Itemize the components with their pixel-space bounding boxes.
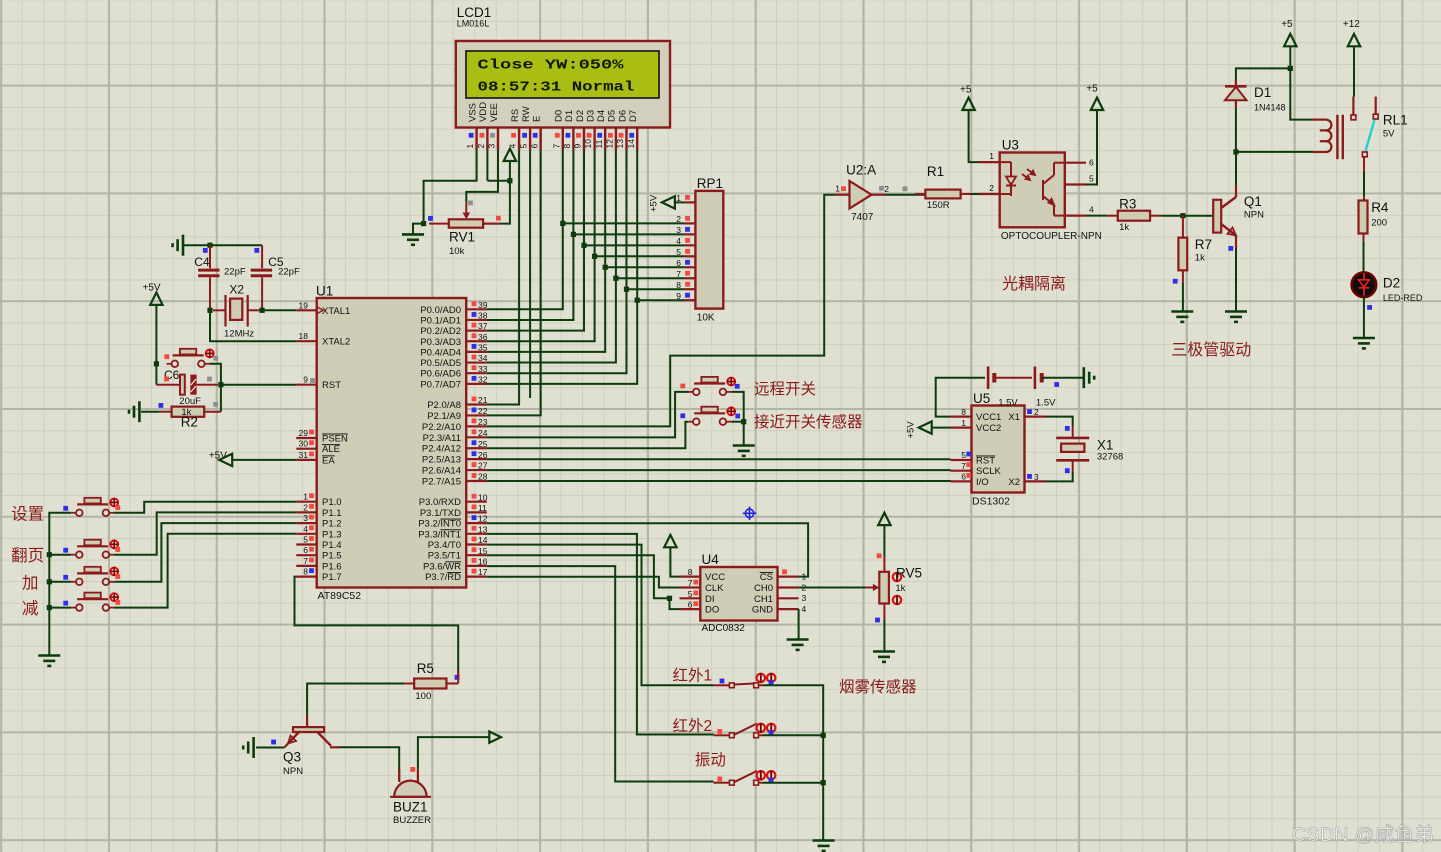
svg-text:7: 7 (303, 556, 308, 566)
U4 pin 3 CH1 (754, 593, 807, 605)
svg-text:P2.7/A15: P2.7/A15 (422, 477, 461, 488)
switch 振动 (729, 780, 734, 785)
svg-text:38: 38 (478, 311, 488, 321)
relay core bars (1337, 115, 1342, 159)
wire +5 node to relay coil top (1290, 68, 1313, 119)
buffer U2:A 7407 triangle (850, 181, 872, 209)
origin crosshair marker (743, 507, 757, 521)
wire +5 to U4 VCC (670, 547, 679, 576)
RP1 pin 1 (676, 193, 695, 203)
svg-text:PSEN: PSEN (322, 434, 348, 445)
svg-text:D7: D7 (628, 110, 639, 122)
svg-text:P2.5/A13: P2.5/A13 (422, 455, 461, 466)
svg-text:ADC0832: ADC0832 (702, 623, 746, 634)
svg-text:P0.2/AD2: P0.2/AD2 (420, 326, 461, 337)
svg-text:39: 39 (478, 300, 488, 310)
svg-text:7: 7 (551, 144, 561, 149)
svg-text:P1.4: P1.4 (322, 540, 342, 551)
svg-text:P0.1/AD1: P0.1/AD1 (420, 315, 461, 326)
wire R5 to Q3 base (307, 684, 404, 715)
U4 pin 2 CH0 (754, 582, 807, 594)
blue square X1 bottom (1065, 468, 1070, 473)
wire reset button right to RST node (210, 364, 221, 385)
svg-text:P1.6: P1.6 (322, 561, 342, 572)
blue square 接近开关 left (680, 413, 685, 418)
wire D2 to ground (1363, 297, 1365, 337)
U1 pin 36 P0.3/AD3 (420, 332, 487, 348)
svg-text:P1.3: P1.3 (322, 529, 342, 540)
svg-text:36: 36 (478, 332, 488, 342)
power +5V arrow above RV1 right (504, 149, 516, 161)
svg-text:6: 6 (529, 144, 539, 149)
wire RST node down to R2 (220, 385, 222, 412)
svg-text:CSDN @咸鱼弟: CSDN @咸鱼弟 (1292, 824, 1434, 846)
svg-text:U5: U5 (973, 391, 990, 406)
wire R4 to D2 (1363, 233, 1365, 241)
svg-text:P2.1/A9: P2.1/A9 (427, 411, 461, 422)
ADC U4 ADC0832 body (700, 567, 777, 621)
svg-text:远程开关: 远程开关 (754, 380, 816, 398)
wire U5 X2 pin to crystal bottom (1046, 472, 1073, 481)
svg-text:15: 15 (478, 546, 488, 556)
U1 pin 15 P3.5 (428, 546, 488, 562)
RP1 pin 5 (676, 247, 695, 257)
svg-text:NPN: NPN (1244, 210, 1264, 221)
blue square 设置 left (63, 506, 68, 511)
RV5 interactive marker up (893, 572, 901, 582)
U4 pin 6 DO (680, 600, 720, 616)
U1 pin 28 P2.7/A15 (422, 472, 488, 488)
blue square 振动 (769, 778, 774, 783)
svg-text:P2.2/A10: P2.2/A10 (422, 422, 461, 433)
U1 pin 5 P1.4 (296, 535, 341, 552)
svg-text:R5: R5 (417, 661, 434, 676)
crystal X2 (213, 295, 260, 327)
svg-text:6: 6 (676, 258, 681, 268)
LCD1 pin 13 (D6) (615, 110, 628, 150)
svg-text:P3.6/WR: P3.6/WR (423, 561, 461, 572)
red square 红外2 label (717, 729, 722, 734)
svg-text:9: 9 (303, 375, 308, 385)
wire R2 left to ground (141, 411, 160, 413)
svg-text:VCC2: VCC2 (976, 423, 1001, 434)
LCD1 pin 8 (D1) (562, 110, 575, 150)
svg-text:19: 19 (299, 300, 309, 310)
U1 pin 31 EA (296, 450, 335, 467)
ground at D2 (1353, 338, 1375, 348)
gray square reset button right (213, 356, 218, 361)
push button 接近开关 (688, 413, 731, 425)
svg-text:U3: U3 (1002, 138, 1019, 153)
svg-text:P3.3/INT1: P3.3/INT1 (418, 529, 461, 540)
svg-text:RS: RS (510, 109, 521, 122)
wire VDD net (+5V arrow to RV1 right, branch LCD pin2) (484, 161, 510, 224)
U1 pin 23 P2.2/A10 (422, 417, 488, 433)
push button (reset) (167, 355, 210, 367)
svg-text:13: 13 (478, 524, 488, 534)
wire common button ground bus (49, 513, 71, 655)
LCD1 pin 10 (D3) (583, 110, 596, 150)
LCD1 pin 14 (D7) (626, 110, 639, 150)
U1 pin 38 P0.1/AD1 (420, 311, 487, 327)
U5 pin 5 RST (951, 450, 996, 466)
red square C6 (164, 377, 169, 382)
U4 pin 8 VCC (680, 567, 726, 583)
svg-text:U2:A: U2:A (846, 163, 876, 178)
LCD1 pin 6 (E) (529, 116, 542, 150)
junction D1 with RP1 pin 3 (571, 232, 576, 237)
wire 翻页 left (49, 554, 71, 556)
svg-text:37: 37 (478, 321, 488, 331)
blue square RV5 bottom (875, 618, 880, 623)
svg-text:红外2: 红外2 (673, 717, 713, 735)
junction crystal left (207, 308, 212, 313)
svg-text:VCC1: VCC1 (976, 412, 1001, 423)
blue square 减 left (63, 601, 68, 606)
svg-text:P0.7/AD7: P0.7/AD7 (420, 379, 461, 390)
svg-text:32768: 32768 (1097, 452, 1123, 463)
LCD1 pin 1 (VSS) (465, 103, 478, 150)
U1 pin 1 P1.0 (296, 492, 341, 509)
svg-text:D2: D2 (575, 110, 586, 122)
ground at RV1 (402, 234, 424, 244)
svg-text:P2.4/A12: P2.4/A12 (422, 444, 461, 455)
svg-text:Close YW:050%: Close YW:050% (478, 59, 625, 74)
ground (rotated) near C4 (173, 235, 183, 256)
power +5 arrow at U4 VCC (664, 535, 676, 547)
svg-text:100: 100 (415, 691, 431, 702)
svg-text:RW: RW (521, 106, 532, 122)
RTC U5 DS1302 body (972, 406, 1025, 493)
U5 pin 6 I/O (951, 472, 989, 488)
U3 pin 4 (1065, 205, 1094, 216)
svg-text:U1: U1 (316, 284, 333, 299)
wire +5 to U3 pin5 (1086, 110, 1097, 185)
wire net P2.4 (U1 to 接近开关 button) (487, 422, 688, 449)
svg-text:+5V: +5V (649, 194, 660, 212)
svg-text:VCC: VCC (705, 572, 725, 583)
wire +12 down to relay common (1353, 46, 1355, 96)
wire net P2.5 (U1 to U5 RST) (487, 458, 951, 460)
wire net RW (LCD pin5 riser) (529, 150, 531, 398)
svg-text:8: 8 (562, 144, 572, 149)
blue square 红外1 (769, 680, 774, 685)
capacitor C5 (251, 245, 272, 310)
U1 pin 16 P3.6 (423, 557, 488, 573)
U2:A input pin 1 (835, 184, 849, 195)
wire RP1 pin 5 row (595, 255, 685, 257)
junction reset button left (154, 361, 159, 366)
U1 pin 19 XTAL1 (296, 300, 350, 317)
LED D2 LED-RED (1352, 272, 1377, 297)
svg-text:17: 17 (478, 567, 488, 577)
svg-text:5: 5 (1089, 174, 1094, 184)
svg-text:18: 18 (299, 331, 309, 341)
红外1 interactive markers (757, 673, 765, 683)
junction D2 with RP1 pin 4 (581, 243, 586, 248)
svg-text:VSS: VSS (467, 103, 478, 122)
svg-text:7: 7 (676, 269, 681, 279)
svg-text:8: 8 (676, 280, 681, 290)
svg-text:6: 6 (303, 545, 308, 555)
junction D5 with RP1 pin 7 (613, 276, 618, 281)
wire ground to C4/C5 top (183, 244, 262, 246)
svg-text:D0: D0 (554, 110, 565, 122)
blue square C5 top (254, 248, 259, 253)
svg-text:25: 25 (478, 439, 488, 449)
wire net D3/P0.3 (LCD pin 10 column to U1 P0.3) (487, 150, 595, 341)
RV5 interactive marker down (893, 595, 901, 605)
junction 加 bus (47, 579, 52, 584)
U2:A output pin 2 (872, 184, 890, 195)
svg-text:P3.5/T1: P3.5/T1 (428, 551, 461, 562)
svg-text:5V: 5V (1383, 129, 1395, 140)
wire RP1 pin 3 row (573, 233, 684, 235)
svg-text:2: 2 (676, 214, 681, 224)
U1 pin 8 P1.7 (296, 567, 341, 584)
red square 远程开关 left (680, 384, 685, 389)
svg-text:3: 3 (802, 593, 807, 603)
relay RL1 switch (1351, 97, 1378, 157)
U5 pin 1 VCC2 (951, 418, 1002, 434)
svg-text:9: 9 (573, 144, 583, 149)
红外2 interactive markers (757, 723, 765, 733)
svg-text:20uF: 20uF (179, 396, 201, 407)
svg-text:4: 4 (1089, 205, 1094, 215)
svg-text:1.5V: 1.5V (1036, 398, 1056, 409)
svg-text:P1.1: P1.1 (322, 508, 342, 519)
junction D6 with RP1 pin 8 (624, 287, 629, 292)
svg-text:三极管驱动: 三极管驱动 (1171, 341, 1251, 359)
wire D1 to +5 node (1236, 68, 1290, 80)
U1 pin 18 XTAL2 (296, 331, 350, 348)
svg-text:10K: 10K (697, 313, 715, 324)
svg-text:1: 1 (989, 151, 994, 161)
svg-text:7: 7 (688, 578, 693, 588)
capacitor C6 (electrolytic) (156, 375, 218, 395)
svg-text:22: 22 (478, 406, 488, 416)
svg-text:8: 8 (961, 407, 966, 417)
svg-text:LED-RED: LED-RED (1383, 293, 1423, 303)
svg-text:振动: 振动 (695, 751, 726, 769)
junction 红外2 bus (821, 733, 826, 738)
ground at U4 (787, 640, 809, 650)
blue square 红外2 (769, 730, 774, 735)
svg-text:P1.0: P1.0 (322, 497, 342, 508)
wire 翻页 to U1 P1.1 (114, 512, 296, 554)
svg-text:12MHz: 12MHz (224, 329, 254, 340)
svg-text:22pF: 22pF (278, 267, 300, 278)
optocoupler U3 body (1000, 153, 1065, 228)
svg-text:10k: 10k (449, 246, 465, 257)
wire net RS (LCD pin4 riser to U1 P2.0) (487, 150, 519, 405)
wire net P2.3 (U1 to 远程开关 button) (487, 392, 689, 438)
U4 pin 1 CS (760, 569, 807, 583)
U1 pin 17 P3.7 (425, 567, 488, 583)
svg-text:14: 14 (626, 139, 636, 149)
svg-text:P0.4/AD4: P0.4/AD4 (420, 347, 461, 358)
svg-text:P2.3/A11: P2.3/A11 (423, 433, 461, 444)
svg-text:32: 32 (478, 374, 488, 384)
svg-text:P0.0/AD0: P0.0/AD0 (420, 305, 461, 316)
U1 pin 30 ALE (296, 439, 340, 456)
svg-text:XTAL1: XTAL1 (322, 306, 350, 317)
switch 红外2 (729, 733, 734, 738)
gray square RV1 wiper (468, 201, 473, 206)
U4 pin 7 CLK (680, 578, 725, 594)
off-page arrow right (489, 732, 501, 743)
svg-text:5: 5 (519, 144, 529, 149)
svg-text:11: 11 (594, 139, 604, 148)
junction button ground bus (741, 419, 746, 424)
junction XTAL1 (260, 308, 265, 313)
U1 pin 4 P1.3 (296, 524, 341, 541)
svg-text:P1.2: P1.2 (322, 519, 342, 530)
svg-text:13: 13 (615, 139, 625, 149)
svg-text:2: 2 (989, 183, 994, 193)
svg-text:X2: X2 (229, 283, 244, 297)
U1 pin 34 P0.5/AD5 (420, 353, 487, 369)
svg-text:28: 28 (478, 472, 488, 482)
svg-text:150R: 150R (927, 200, 950, 211)
svg-text:2: 2 (476, 144, 486, 149)
svg-text:1k: 1k (1119, 222, 1129, 233)
svg-text:OPTOCOUPLER-NPN: OPTOCOUPLER-NPN (1001, 231, 1102, 242)
wire RP1 pin 4 row (584, 244, 685, 246)
svg-text:D1: D1 (1254, 85, 1271, 100)
wire +5V to U5 VCC2 (932, 427, 951, 429)
svg-text:34: 34 (478, 353, 488, 363)
U1 pin 13 P3.3 (418, 524, 488, 540)
wire RP1 pin 7 row (616, 277, 685, 279)
resistor R3 (1107, 211, 1162, 221)
svg-text:P0.6/AD6: P0.6/AD6 (420, 369, 461, 380)
svg-text:红外1: 红外1 (673, 667, 713, 685)
junction RV1 left (421, 221, 426, 226)
U3 internal transistor (1043, 163, 1065, 216)
switch 红外1 (729, 683, 734, 688)
svg-text:12: 12 (605, 139, 615, 149)
svg-text:29: 29 (299, 428, 309, 438)
wire 加 left (49, 581, 71, 583)
wire 设置 to U1 P1.0 (114, 502, 296, 513)
wire net P3.6 (U1 to 振动 switch) (487, 566, 714, 781)
svg-text:CH0: CH0 (754, 583, 773, 594)
wire bus to ground (822, 783, 824, 840)
ground at Q1 (1225, 312, 1247, 322)
svg-text:U4: U4 (702, 552, 720, 567)
svg-text:R1: R1 (927, 164, 944, 179)
svg-text:21: 21 (478, 395, 488, 405)
U3 light arrows (1022, 169, 1035, 180)
svg-text:3: 3 (1034, 472, 1039, 482)
svg-text:P2.0/A8: P2.0/A8 (427, 400, 461, 411)
wire RV1 left to ground (413, 224, 424, 235)
U1 pin 21 P2.0/A8 (427, 395, 488, 411)
wire U2:A output to R1 (886, 194, 926, 196)
U5 pin 3 X2 (1008, 472, 1045, 488)
wire relay common to R4 (1363, 157, 1365, 172)
blue square 翻页 left (63, 548, 68, 553)
svg-text:ALE: ALE (322, 444, 340, 455)
svg-text:RST: RST (322, 380, 341, 391)
RP1 pin 3 (676, 225, 695, 235)
svg-text:VDD: VDD (478, 102, 489, 122)
svg-text:GND: GND (752, 605, 773, 616)
wire 红外2 to bus (763, 734, 823, 736)
svg-text:33: 33 (478, 364, 488, 374)
wire Q3 emitter to ground (256, 747, 284, 749)
LCD1 pin 4 (RS) (508, 109, 521, 150)
svg-text:NPN: NPN (283, 766, 303, 777)
RP1 pin 9 (676, 291, 695, 301)
LCD1 pin 5 (RW) (519, 106, 532, 150)
resistor R4 (1359, 201, 1368, 234)
svg-text:16: 16 (478, 557, 488, 567)
svg-text:RV1: RV1 (449, 230, 475, 245)
U1 pin 32 P0.7/AD7 (420, 374, 487, 390)
blue square 加 left (63, 575, 68, 580)
svg-text:1: 1 (961, 418, 966, 428)
resistor R5 (404, 671, 458, 689)
gray square on wire (903, 186, 908, 191)
LCD1 pin 12 (D5) (605, 110, 618, 150)
microcontroller U1 AT89C52 body (317, 298, 467, 588)
svg-text:14: 14 (478, 535, 488, 545)
RP1 pin 4 (676, 236, 695, 246)
blue square D2 bottom (1367, 305, 1372, 310)
svg-text:+5V: +5V (143, 283, 161, 294)
ground (rotated right) at battery (1084, 367, 1094, 388)
svg-text:RV5: RV5 (896, 566, 922, 581)
svg-text:24: 24 (478, 428, 488, 438)
svg-text:R3: R3 (1119, 197, 1136, 212)
svg-text:P2.6/A14: P2.6/A14 (422, 466, 461, 477)
svg-text:AT89C52: AT89C52 (318, 590, 362, 602)
junction DI/DO (667, 596, 672, 601)
svg-text:23: 23 (478, 417, 488, 427)
svg-text:RST: RST (976, 456, 995, 467)
svg-text:CS: CS (760, 572, 773, 583)
svg-text:30: 30 (299, 439, 309, 449)
svg-text:DS1302: DS1302 (972, 496, 1010, 508)
U1 pin 2 P1.1 (296, 502, 341, 519)
wire XTAL2 net (C4 bottom to U1 XTAL2) (210, 310, 296, 341)
U3 pin 5 (1065, 174, 1094, 185)
svg-text:35: 35 (478, 343, 488, 353)
wire 红外1 to bus (763, 685, 823, 735)
junction D0 with RP1 pin 2 (560, 221, 565, 226)
junction 振动 bus (821, 780, 826, 785)
wire Q3 collector to BUZ1 (340, 747, 400, 781)
junction C4 top (207, 243, 212, 248)
svg-text:D1: D1 (564, 110, 575, 122)
wire net P2.7 (U1 to U5 I/O) (487, 480, 951, 482)
svg-text:5: 5 (961, 450, 966, 460)
wire net P2.6 (U1 to U5 SCLK) (487, 469, 951, 471)
transistor Q1 NPN (1213, 185, 1236, 248)
wire net P3.4 (U1 to 红外1 switch) (487, 545, 714, 686)
svg-text:接近开关传感器: 接近开关传感器 (754, 413, 863, 431)
wire bus down (822, 735, 824, 782)
svg-text:XTAL2: XTAL2 (322, 337, 350, 348)
wire U4 DI/DO tie (665, 597, 670, 599)
U3 pin 2 (979, 183, 1000, 194)
wire net D6/P0.6 (LCD pin 13 column to U1 P0.6) (487, 150, 627, 373)
blue square R5 right (455, 675, 460, 680)
potentiometer RV1 (429, 202, 500, 228)
RP1 pin 7 (676, 269, 695, 279)
